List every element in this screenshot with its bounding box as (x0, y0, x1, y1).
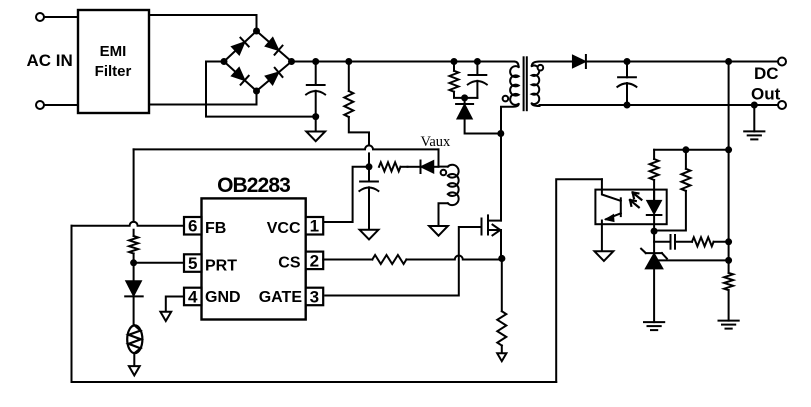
wire Vaux sense line (134, 145, 439, 149)
thermistor RT1 (127, 325, 142, 366)
ground primary below C1 (306, 117, 325, 142)
wire divider tap to opto branch (654, 146, 732, 153)
wire VCC node to pin1 (323, 167, 369, 222)
EMI filter block (78, 10, 149, 113)
wire PRT node to pin 5 (134, 262, 184, 264)
ground arrow at GND pin (160, 312, 171, 321)
diode D6 clamp (456, 94, 501, 133)
wire secondary top rail (540, 61, 779, 63)
svg-text:DC: DC (754, 64, 779, 83)
wire GATE pin to MOSFET gate (325, 227, 481, 296)
DC output terminal top (778, 58, 786, 66)
ground secondary below divider (719, 321, 739, 329)
resistor R2 Vaux to VCC (379, 162, 408, 171)
capacitor C3 snubber (468, 58, 487, 98)
wire EMI top output to bridge top node (149, 15, 257, 31)
node VCC junction (366, 163, 373, 170)
resistor R3 snubber (450, 58, 478, 98)
shunt regulator U3 TL431 (641, 231, 667, 322)
transistor Q1 MOSFET (482, 134, 502, 259)
ground arrow below sense resistor (497, 353, 506, 361)
diode D8 protection (125, 263, 143, 325)
svg-text:FB: FB (205, 220, 226, 237)
wire output voltage divider column (725, 58, 732, 273)
wire secondary bottom rail (540, 105, 779, 106)
node CS junction (498, 255, 505, 262)
capacitor C2 VCC (359, 167, 378, 230)
ground secondary at DC out (744, 102, 764, 140)
transformer T1 core (524, 57, 527, 110)
resistor R1 startup (344, 58, 369, 145)
ground secondary below TL431 (644, 322, 664, 330)
wire AC bottom to EMI filter (44, 104, 78, 106)
bridge rectifier BD1 (221, 28, 296, 95)
svg-text:OB2283: OB2283 (217, 174, 290, 197)
resistor R9 opto bias (654, 150, 690, 231)
node primary bottom junction (497, 130, 504, 137)
svg-text:Out: Out (751, 85, 781, 104)
wire bridge negative return (206, 62, 316, 117)
wire HV bus rail (292, 61, 515, 63)
svg-text:PRT: PRT (205, 258, 237, 275)
node opto cathode / TL431 cathode (651, 228, 658, 235)
svg-text:5: 5 (188, 254, 197, 273)
ground arrow below thermistor (129, 366, 140, 375)
wire GND pin to ground (166, 297, 184, 312)
op-amp U1 OB2283 controller (202, 174, 306, 320)
capacitor C5 compensation (654, 235, 692, 249)
pin 6 FB (184, 217, 226, 238)
node PRT junction (130, 259, 137, 266)
svg-text:GND: GND (205, 289, 241, 306)
pin 3 GATE (259, 288, 323, 307)
svg-text:EMI: EMI (100, 43, 127, 60)
wire EMI bottom output to bridge bottom node (149, 91, 257, 105)
ground primary below aux winding (429, 226, 448, 236)
pin 1 VCC (267, 217, 323, 238)
label DC Out (751, 64, 781, 104)
resistor R5 CS filter (323, 255, 502, 264)
AC input terminal top (36, 13, 44, 21)
pin 5 PRT (184, 254, 237, 275)
svg-text:VCC: VCC (267, 220, 301, 237)
svg-text:CS: CS (278, 255, 301, 272)
ground primary below C2 (360, 230, 379, 240)
opto-coupler U2 (595, 179, 666, 251)
resistor R6 current sense (497, 259, 506, 354)
svg-text:GATE: GATE (259, 289, 303, 306)
wire AC top to EMI filter (44, 16, 78, 18)
inductor aux winding (439, 149, 459, 226)
label Vaux (421, 134, 452, 150)
DC output terminal bottom (778, 101, 786, 109)
svg-text:6: 6 (188, 217, 197, 236)
capacitor C4 output (617, 58, 636, 109)
resistor R4 line sense upper (129, 149, 138, 262)
wire feedback bus riser to opto (556, 179, 602, 382)
ground primary below opto emitter (595, 251, 614, 261)
svg-text:AC IN: AC IN (27, 51, 73, 70)
svg-text:Vaux: Vaux (421, 134, 452, 150)
wire feedback bus bottom run (72, 381, 557, 383)
diode D7 output rectifier (573, 55, 586, 68)
pin 2 CS (278, 251, 323, 271)
wire FB pin to feedback bus (72, 222, 185, 226)
svg-text:1: 1 (310, 217, 319, 236)
wire feedback bus left column (71, 226, 73, 382)
svg-text:Filter: Filter (95, 63, 132, 80)
capacitor C1 bulk (306, 58, 325, 120)
svg-text:3: 3 (310, 288, 319, 307)
diode D5 Vaux rectifier (408, 161, 439, 174)
label AC IN (27, 51, 73, 70)
resistor R11 divider bottom (724, 273, 733, 321)
resistor R10 compensation (692, 237, 732, 246)
AC input terminal bottom (36, 101, 44, 109)
svg-text:4: 4 (188, 288, 198, 307)
resistor R8 opto LED series (650, 150, 659, 201)
pin 4 GND (184, 288, 241, 307)
transformer T1 primary winding (501, 62, 519, 134)
wire TL431 ref to divider tap (659, 257, 732, 264)
transformer T1 secondary winding (532, 62, 543, 107)
wire R1 through hop to VCC node (368, 153, 370, 166)
svg-text:2: 2 (310, 251, 319, 270)
